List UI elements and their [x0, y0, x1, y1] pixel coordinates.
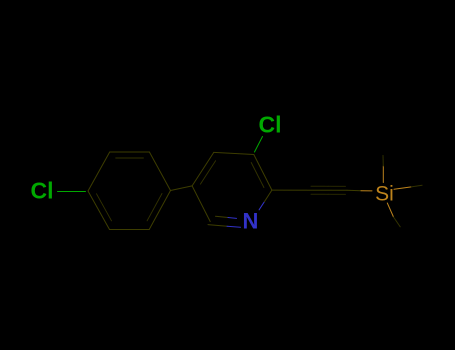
pyridine C4-C3 edge: [214, 152, 254, 154]
benzene C4-C5 edge: [149, 191, 170, 230]
svg-text:Si: Si: [375, 182, 394, 205]
pyridine C6-C5 edge: [192, 186, 210, 222]
Si down methyl bond silicon half: [387, 203, 393, 217]
pyridine C5-C4 edge: [192, 152, 214, 186]
benzene double bond inner line right: [147, 194, 162, 221]
alkyne chain main line C2-Ca-Cb: [272, 189, 347, 191]
benzene double bond inner line left: [97, 194, 112, 221]
bond C3-Cl2: [255, 137, 263, 153]
pyridine C2=C3 inner line: [251, 163, 264, 188]
bond Cb-Si carbon half: [347, 189, 361, 191]
benzene C1-C2 edge: [88, 152, 110, 191]
pyridine N=C6 upper line carbon half: [216, 216, 229, 217]
pyridine C3-C2 edge: [254, 155, 272, 191]
Si down methyl bond carbon half: [394, 217, 401, 227]
Si up methyl bond silicon half: [382, 166, 384, 183]
pyridine C2-N bond nitrogen half: [259, 202, 264, 210]
pyridine N=C6 upper line nitrogen half: [228, 217, 237, 220]
pyridine C2-N bond carbon half: [264, 190, 272, 202]
Si up methyl bond carbon half: [382, 156, 384, 167]
benzene double bond inner line top: [116, 157, 144, 159]
Si right methyl bond silicon half: [394, 187, 411, 189]
bond Cl1-C1 (chlorophenyl): [58, 191, 86, 193]
benzene C6-C1 edge: [88, 191, 110, 230]
triple bond lower line: [311, 193, 346, 195]
pyridine N=C6 lower line carbon half: [208, 225, 227, 227]
svg-text:N: N: [243, 209, 259, 234]
svg-text:Cl: Cl: [259, 112, 282, 138]
triple bond upper line: [311, 185, 346, 187]
benzene C5-C6 edge: [110, 229, 150, 231]
svg-text:Cl: Cl: [31, 178, 54, 204]
biaryl bond: [171, 186, 193, 191]
bond Cb-Si silicon half: [361, 190, 372, 192]
Si right methyl bond carbon half: [411, 185, 422, 187]
benzene C3-C4 edge: [149, 152, 170, 191]
pyridine C4=C5 inner line: [200, 161, 215, 184]
benzene C2-C3 edge: [110, 151, 150, 153]
pyridine N=C6 lower line nitrogen half: [227, 226, 241, 227]
